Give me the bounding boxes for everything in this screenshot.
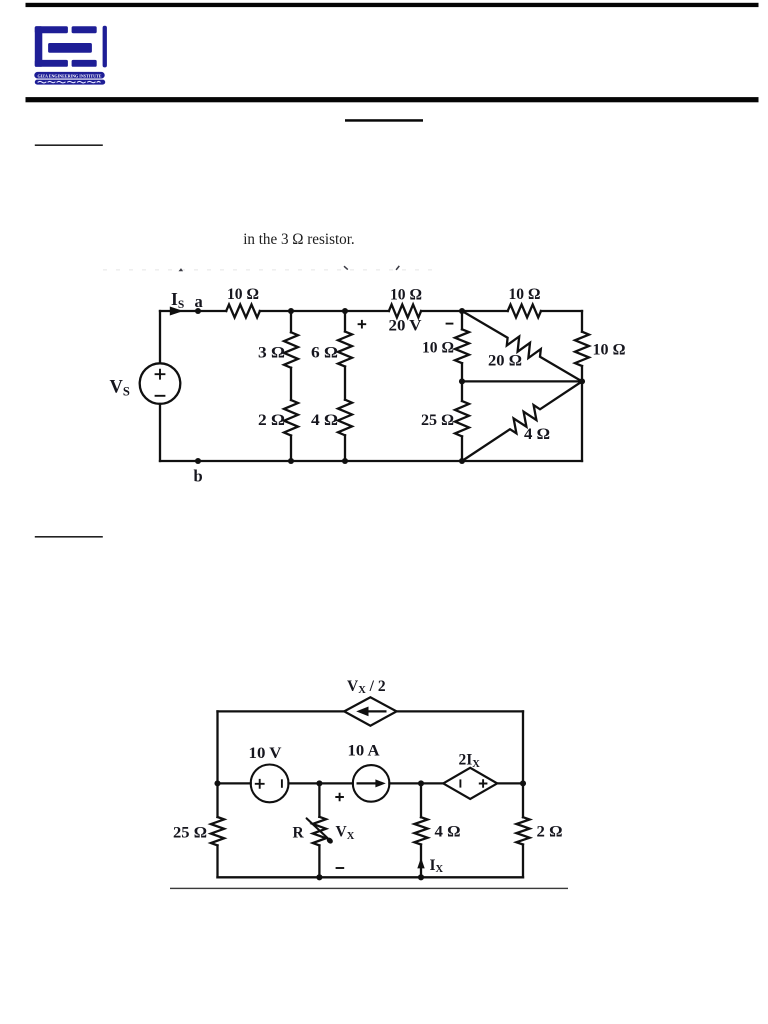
node right junction (579, 378, 585, 384)
svg-text:25 Ω: 25 Ω (173, 825, 207, 842)
resistor 2 ohm (c2) (516, 817, 529, 844)
voltage source Vs circle (140, 363, 181, 404)
resistor 10 ohm top-left (226, 305, 260, 318)
resistor 4 ohm diagonal (462, 381, 582, 461)
10 V right bar (281, 779, 283, 788)
svg-text:10 Ω: 10 Ω (227, 286, 259, 303)
svg-text:GIZA ENGINEERING INSTITUTE: GIZA ENGINEERING INSTITUTE (38, 73, 102, 78)
10 A arrow (pointing right) (357, 779, 386, 787)
right column wires (c2) (522, 711, 524, 877)
list marker underline 1 (35, 144, 103, 146)
resistor 10 ohm right column (575, 332, 589, 366)
circuit 1 top wire (160, 310, 582, 312)
svg-text:2 Ω: 2 Ω (537, 824, 563, 841)
Vx plus sign (335, 793, 344, 802)
node bottom of 6 ohm column (342, 458, 348, 464)
resistor 20 ohm diagonal (462, 311, 582, 381)
svg-text:IS: IS (171, 289, 184, 311)
node b (195, 458, 201, 464)
10 V plus sign (255, 779, 265, 789)
3 ohm / 2 ohm column wires (290, 311, 292, 461)
resistor 4 ohm (338, 400, 352, 436)
circuit 2 bottom wire (218, 876, 524, 878)
node middle-left (214, 780, 220, 786)
circuit 1 bottom wire (160, 460, 582, 462)
2Ix minus bar (459, 779, 461, 787)
svg-text:4 Ω: 4 Ω (311, 412, 338, 429)
resistor 10 ohm top-middle (20 V) (389, 305, 421, 318)
resistor 10 ohm (middle column) (455, 329, 469, 363)
svg-text:2IX: 2IX (459, 752, 481, 770)
svg-text:10 Ω: 10 Ω (593, 341, 626, 358)
resistor 6 ohm (338, 332, 352, 367)
list marker underline 2 (35, 536, 103, 538)
circuit 2 middle wire (218, 782, 524, 784)
Vs plus sign (155, 369, 166, 380)
GEI logo arabic banner (35, 80, 105, 85)
middle-right horizontal wire (462, 380, 582, 382)
header top rule (26, 3, 759, 7)
svg-text:10 Ω: 10 Ω (390, 287, 422, 304)
svg-text:VS: VS (110, 378, 130, 399)
svg-text:10 A: 10 A (348, 742, 381, 759)
dependent voltage source 2Ix diamond (443, 768, 497, 799)
node bottom of 3 ohm column (288, 458, 294, 464)
label 20 V minus (446, 323, 454, 325)
svg-text:4 Ω: 4 Ω (524, 426, 550, 443)
Vx/2 arrow (pointing left) (356, 707, 386, 717)
node left of 2Ix diamond (418, 780, 424, 786)
svg-text:2 Ω: 2 Ω (258, 412, 285, 429)
svg-text:10 Ω: 10 Ω (422, 340, 454, 357)
bottom thin rule (170, 888, 568, 889)
svg-text:10 V: 10 V (249, 745, 283, 762)
svg-text:20 Ω: 20 Ω (488, 352, 522, 369)
R wiper arrow (307, 818, 334, 844)
svg-text:a: a (195, 292, 203, 311)
svg-text:VX: VX (336, 824, 355, 842)
GEI logo banner GIZA ENGINEERING INSTITUTE (34, 72, 104, 79)
node top of 6 ohm column (342, 308, 348, 314)
Vs minus sign (155, 395, 166, 397)
svg-text:10 Ω: 10 Ω (509, 286, 541, 303)
svg-text:b: b (194, 467, 203, 486)
Vx minus sign (336, 867, 345, 869)
svg-text:6 Ω: 6 Ω (311, 344, 338, 361)
6 ohm / 4 ohm column wires (344, 311, 346, 461)
node bottom 4 ohm column (418, 874, 424, 880)
circuit 1 left vertical wires to source Vs (159, 311, 161, 461)
dependent current source Vx/2 diamond (344, 697, 396, 725)
node left of R column (316, 780, 322, 786)
current Is arrow (170, 307, 184, 316)
GEI logo letter E (72, 26, 97, 67)
circuit 2 top wire (218, 710, 524, 712)
current source 10 A circle (353, 765, 390, 802)
node bottom of 10/25 column (459, 458, 465, 464)
resistor 10 ohm top-right (508, 305, 541, 318)
GEI logo letter G (35, 26, 68, 67)
GEI logo letter I (103, 26, 107, 68)
4 ohm column wires (420, 783, 422, 877)
resistor 4 ohm (c2) (414, 817, 427, 844)
R column wires (318, 783, 320, 877)
node top of 10/25 ohm column (459, 308, 465, 314)
node top of 3 ohm column (288, 308, 294, 314)
node middle of 10/25 column (459, 378, 465, 384)
svg-text:20 V: 20 V (389, 318, 422, 335)
resistor 25 ohm (c2) (211, 817, 224, 845)
GEI logo middle bar (G arm / E middle) (48, 43, 92, 53)
svg-text:VX / 2: VX / 2 (347, 678, 386, 696)
svg-text:3 Ω: 3 Ω (258, 344, 285, 361)
title underline (345, 119, 423, 122)
10/25 ohm column wires (461, 311, 463, 461)
svg-text:IX: IX (430, 857, 444, 875)
header bottom rule (26, 97, 759, 102)
faint cropped text artifacts row (103, 266, 433, 271)
node right column middle (520, 780, 526, 786)
resistor 25 ohm (455, 401, 469, 436)
node bottom R column (316, 874, 322, 880)
svg-text:25 Ω: 25 Ω (421, 412, 454, 429)
label 20 V plus (358, 320, 367, 329)
circuit 2 left column wire (216, 711, 218, 877)
node a (195, 308, 201, 314)
resistor 3 ohm (284, 332, 298, 367)
variable resistor R (313, 817, 326, 846)
svg-text:R: R (293, 825, 305, 842)
svg-text:in the 3 Ω resistor.: in the 3 Ω resistor. (243, 231, 355, 248)
resistor 2 ohm (284, 400, 298, 436)
right column wires (581, 311, 583, 461)
Ix arrow (up) (417, 858, 424, 869)
2Ix plus sign (479, 779, 488, 788)
svg-text:4 Ω: 4 Ω (435, 824, 461, 841)
voltage source 10 V circle (251, 765, 289, 803)
